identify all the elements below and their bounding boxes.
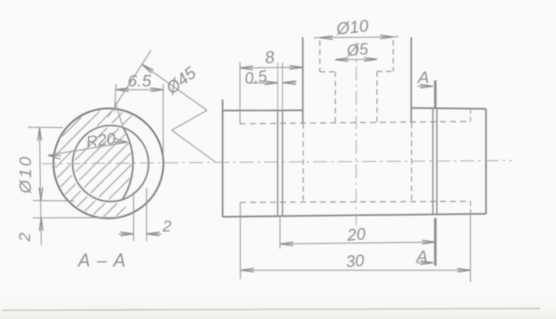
tangent extension line under outer circle bottom (33, 217, 121, 219)
hidden bore right end bottom corner (470, 201, 472, 214)
dim 20 dimension line (280, 242, 435, 244)
boss right outer edge (410, 37, 412, 122)
dim 6.5 extension line left (115, 84, 116, 112)
svg-text:0.5: 0.5 (244, 68, 268, 88)
boss left hidden continuation through bore (302, 123, 304, 202)
dim 0.5 arrows (250, 82, 277, 84)
section arrow top (417, 85, 432, 87)
hidden hole φ5 lines (334, 72, 336, 123)
dim 6.5 dimension line (116, 89, 163, 91)
main view: bottom outer edge (223, 214, 486, 217)
right groove lines (432, 108, 434, 214)
dim 30 dimension line (241, 269, 470, 271)
groove extension lines above part (277, 63, 279, 111)
dim φ10 extension line bottom / tangent middle circle bottom (33, 200, 74, 203)
leader φ45 with zigzag connecting to main view (142, 64, 207, 110)
dim 8 dimension line (240, 66, 302, 69)
dim φ10 extension line top (28, 126, 63, 128)
hidden bore top line (240, 121, 471, 123)
svg-text:Ø10: Ø10 (334, 16, 369, 38)
section view A-A: outer circle of sleeve (53, 108, 163, 218)
section view A-A: crescent boundary arc of eccentric core (122, 128, 133, 200)
main view: left end face (222, 100, 224, 217)
boss right hidden continuation through bore (411, 123, 413, 202)
svg-text:A: A (417, 68, 429, 87)
svg-text:A: A (415, 247, 427, 266)
section plane trace top (thick) (434, 80, 436, 108)
dim 20 extension line left (groove) (279, 217, 281, 249)
dim 6.5 extension line right (162, 84, 164, 157)
boss left outer edge (302, 37, 304, 123)
horizontal axis centerline main view (215, 161, 512, 163)
leader R20 (48, 142, 127, 155)
left groove lines (277, 110, 279, 216)
dim 30 extension line right (bore end) (469, 214, 471, 282)
dim 2 extension lines bottom right (133, 192, 135, 241)
dim φ5 dimension line (335, 58, 377, 60)
vertical boss centerline (355, 42, 357, 226)
svg-text:Ø5: Ø5 (345, 41, 369, 60)
dim 8 extension line (bore end) (239, 62, 241, 125)
dim φ10 vertical dimension line (40, 128, 42, 246)
svg-text:A – A: A – A (77, 251, 127, 271)
svg-text:2: 2 (17, 232, 34, 242)
dim 30 extension line left (bore end) (239, 202, 241, 279)
hidden counterbore step lines (320, 71, 336, 73)
main view: top outer edge left of boss (223, 109, 303, 111)
section view A-A: bore circle R20 (73, 126, 149, 202)
svg-text:30: 30 (345, 252, 366, 272)
svg-text:2: 2 (162, 219, 172, 236)
section plane trace bottom (thick) (434, 218, 436, 266)
hidden counterbore φ10 left line (319, 41, 321, 72)
main view: top outer edge right of boss (411, 107, 486, 110)
slanted reference line at circle top (108, 50, 151, 117)
section arrow bottom (416, 262, 433, 264)
hidden bore bottom line (240, 201, 471, 202)
horizontal centerline (axis) left part (42, 162, 215, 163)
main view: right end face (485, 109, 487, 214)
hatching of cut material (62, 117, 81, 136)
dim φ10 dimension line (314, 37, 399, 38)
page rule line at bottom (2, 309, 540, 311)
svg-text:Ø10: Ø10 (16, 155, 35, 195)
svg-text:20: 20 (346, 225, 368, 245)
short trace line down to crescent junction (115, 101, 123, 128)
hidden bore right end top corner (470, 109, 472, 121)
dim 2 arrows (119, 233, 134, 235)
